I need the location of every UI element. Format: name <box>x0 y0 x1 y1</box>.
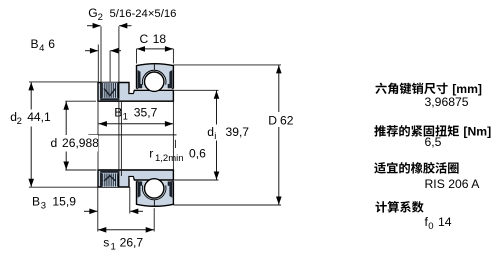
di dimension <box>174 89 218 91</box>
G2 dimension <box>100 26 102 82</box>
spec label: recommended tightening torque [Nm] <box>374 125 386 136</box>
svg-text:5/16-24×5/16: 5/16-24×5/16 <box>110 8 177 20</box>
svg-text:39,7: 39,7 <box>226 125 250 139</box>
seal right (upper) <box>169 70 172 88</box>
svg-text:[Nm]: [Nm] <box>463 125 491 139</box>
svg-text:6: 6 <box>48 37 55 51</box>
svg-text:26,7: 26,7 <box>120 236 144 250</box>
svg-text:26,988: 26,988 <box>62 136 99 150</box>
svg-text:1: 1 <box>123 111 128 122</box>
collar relief groove (upper) <box>130 91 134 93</box>
label r12min 0,6 with leader <box>174 140 176 148</box>
outer ring (lower half) <box>137 181 174 206</box>
label D 62 <box>266 112 294 127</box>
bore surface lines <box>98 100 173 102</box>
B1 dimension <box>98 123 173 125</box>
svg-text:18: 18 <box>153 32 167 46</box>
outer ring centre joint line (upper) <box>153 64 155 70</box>
centerline <box>88 134 176 136</box>
outer raceway arc (lower) <box>142 185 166 199</box>
svg-text:2: 2 <box>98 12 103 23</box>
D dimension <box>173 64 281 66</box>
ball (upper) <box>145 72 164 91</box>
spec label: suitable rubber seating ring <box>374 162 386 173</box>
svg-text:1,2min: 1,2min <box>155 153 184 164</box>
d2 dimension <box>29 81 98 83</box>
outer ring centre joint line (lower) <box>153 200 155 206</box>
inner-ring side face extension lines in bore area <box>97 101 99 170</box>
outer ring bottom-edge stubs (upper) <box>137 88 139 90</box>
svg-text:3: 3 <box>41 200 46 211</box>
outer ring top-edge stubs (lower) <box>137 180 139 182</box>
inner ring with collar (upper half) <box>98 83 173 102</box>
ball (lower) <box>145 179 164 198</box>
svg-text:B: B <box>114 105 122 119</box>
set screw G2 (lower), section through collar <box>101 173 119 187</box>
svg-text:0: 0 <box>428 221 433 232</box>
svg-text:s: s <box>103 236 109 250</box>
B4 dimension <box>97 45 99 83</box>
svg-text:3,96875: 3,96875 <box>425 95 469 109</box>
spec label: hex key size [mm] <box>375 83 386 94</box>
spec label: calculation factor <box>375 201 386 212</box>
seal right (lower) <box>169 181 172 197</box>
C dimension <box>136 49 138 64</box>
d dimension <box>65 100 96 102</box>
svg-text:62: 62 <box>280 113 294 127</box>
svg-text:B: B <box>32 194 40 208</box>
svg-text:44,1: 44,1 <box>27 110 51 124</box>
svg-text:D: D <box>268 113 277 127</box>
svg-text:RIS 206 A: RIS 206 A <box>425 177 481 191</box>
outer raceway arc (upper) <box>142 70 166 84</box>
B3 dimension <box>97 187 99 232</box>
svg-text:d: d <box>51 136 58 150</box>
svg-text:G: G <box>88 6 97 20</box>
svg-text:r: r <box>149 147 153 161</box>
svg-text:6,5: 6,5 <box>425 135 442 149</box>
extension lines through bore (screw hole edges) <box>118 26 120 82</box>
svg-text:d: d <box>207 125 214 139</box>
svg-text:15,9: 15,9 <box>52 194 76 208</box>
svg-text:B: B <box>31 37 39 51</box>
seal left (upper) <box>138 70 141 88</box>
svg-text:C: C <box>140 32 149 46</box>
label di 39,7 <box>205 125 247 141</box>
label d 26,988 <box>48 135 98 152</box>
svg-text:35,7: 35,7 <box>134 105 158 119</box>
svg-text:1: 1 <box>111 242 116 253</box>
inner ring with collar (lower half) <box>98 170 173 187</box>
outer ring (upper half) <box>137 64 174 89</box>
label d2 44,1 <box>8 110 60 127</box>
collar relief groove (lower) <box>130 177 134 179</box>
svg-text:i: i <box>214 131 216 142</box>
svg-text:0,6: 0,6 <box>189 147 206 161</box>
svg-text:4: 4 <box>39 43 44 54</box>
s1 dimension <box>153 208 155 231</box>
set screw G2 (upper), section through collar <box>101 83 119 99</box>
seal left (lower) <box>138 181 141 197</box>
svg-text:2: 2 <box>17 116 22 127</box>
svg-text:14: 14 <box>438 215 452 229</box>
